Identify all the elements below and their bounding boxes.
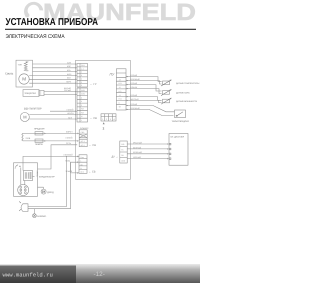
svg-text:-t1: -t1 xyxy=(119,94,121,97)
svg-text:СЕРЫЙ: СЕРЫЙ xyxy=(131,82,138,85)
svg-text:-t2: -t2 xyxy=(119,86,121,89)
svg-text:ДАТЧИК ТЕМПЕРАТУРЫ: ДАТЧИК ТЕМПЕРАТУРЫ xyxy=(176,82,199,85)
svg-text:ДАТЧИК ВЛАЖНОСТИ: ДАТЧИК ВЛАЖНОСТИ xyxy=(176,100,198,103)
svg-text:Н.З: Н.З xyxy=(119,90,122,93)
fan wire labels xyxy=(67,109,75,120)
connector E (4 cells) xyxy=(120,141,127,163)
svg-text:ЛАМПА: ЛАМПА xyxy=(35,143,43,146)
svg-text:ТХ: ТХ xyxy=(121,148,124,151)
svg-text:220В: 220В xyxy=(26,137,31,140)
svg-text:АС-1: АС-1 xyxy=(81,140,85,143)
latch pin block xyxy=(39,90,44,95)
svg-text:4: 4 xyxy=(81,77,82,80)
svg-text:ЗАЗЕМЛ.: ЗАЗЕМЛ. xyxy=(37,215,47,218)
svg-text:ЗУММЕР: ЗУММЕР xyxy=(80,127,89,130)
svg-text:УСТАНОВКА ПРИБОРА: УСТАНОВКА ПРИБОРА xyxy=(6,17,99,28)
svg-text:ТП: ТП xyxy=(119,105,122,108)
connector B (9 cells) xyxy=(77,88,88,122)
svg-text:ЭЛЕКТРИЧЕСКАЯ СХЕМА: ЭЛЕКТРИЧЕСКАЯ СХЕМА xyxy=(6,34,65,40)
thermostat box xyxy=(175,110,186,118)
mains wire 2 xyxy=(71,162,79,209)
grill motor M xyxy=(19,74,29,84)
svg-text:ДИОД: ДИОД xyxy=(47,191,54,194)
svg-text:ЗАЩЕЛКА: ЗАЩЕЛКА xyxy=(25,92,37,95)
svg-text:КРАСНЫЙ: КРАСНЫЙ xyxy=(133,141,142,144)
svg-text:ПЛ. ДИСПЛЕЯ: ПЛ. ДИСПЛЕЯ xyxy=(170,136,184,139)
svg-text:ЗЕЛЕНЫЙ: ЗЕЛЕНЫЙ xyxy=(133,151,143,154)
svg-text:СЕРЫЙ: СЕРЫЙ xyxy=(64,89,72,92)
main control board box ПУ xyxy=(76,60,131,179)
latch arrowheads xyxy=(75,91,77,95)
svg-text:2: 2 xyxy=(103,126,105,130)
display wires xyxy=(127,144,167,159)
svg-text:ЧЕРНЫЙ: ЧЕРНЫЙ xyxy=(133,156,141,159)
svg-text:НОЛЬ: НОЛЬ xyxy=(65,160,71,163)
svg-text:M: M xyxy=(23,115,26,120)
wire H3 V3 from capacitor to connector C xyxy=(38,145,78,169)
wire arrowheads A xyxy=(75,63,77,84)
svg-text:ТЕРМОПРЕДОХР.: ТЕРМОПРЕДОХР. xyxy=(172,120,190,123)
connector D (5 cells) xyxy=(79,155,87,174)
svg-text:АС-2: АС-2 xyxy=(81,144,85,147)
svg-text:3: 3 xyxy=(81,74,82,77)
svg-text:КОРИЧ: КОРИЧ xyxy=(66,131,73,134)
svg-text:ТЭН: ТЭН xyxy=(18,63,23,66)
svg-text:ДАТЧИК ПАРА: ДАТЧИК ПАРА xyxy=(176,92,190,95)
ground stub xyxy=(33,209,35,214)
svg-text:СИНИЙ: СИНИЙ xyxy=(66,136,73,139)
svg-text:2: 2 xyxy=(81,71,82,74)
svg-text:ОРАНЖ: ОРАНЖ xyxy=(131,86,138,89)
svg-text:ВЕНТИЛЯТОР: ВЕНТИЛЯТОР xyxy=(24,107,42,110)
latch box ЗАЩЕЛКА xyxy=(23,90,39,97)
ground symbol xyxy=(33,214,37,218)
latch wires xyxy=(44,92,75,95)
board right connector column (10 cells) xyxy=(116,69,126,110)
fan arrowheads xyxy=(75,110,77,119)
transformer feed wire (mains L) xyxy=(23,156,79,170)
program connector 4-cell row xyxy=(101,114,116,121)
varistor zigzag xyxy=(22,133,24,140)
transformer to magnetron wires xyxy=(21,168,25,186)
arrowheads connector D xyxy=(77,156,79,174)
svg-text:СЕРЫЙ: СЕРЫЙ xyxy=(131,74,138,77)
svg-text:ЧЕРН: ЧЕРН xyxy=(66,81,72,84)
diode wire xyxy=(38,187,44,189)
fan wires xyxy=(29,111,75,119)
svg-text:www.maunfeld.ru: www.maunfeld.ru xyxy=(3,272,53,279)
svg-text:-12-: -12- xyxy=(94,271,105,278)
svg-text:5: 5 xyxy=(81,104,82,107)
svg-text:КРАСН: КРАСН xyxy=(67,112,74,115)
thermo wires diagonal xyxy=(126,106,174,116)
fuse wire labels xyxy=(66,131,74,140)
svg-text:СИНИЙ: СИНИЙ xyxy=(67,109,74,112)
heating element coil xyxy=(24,62,27,71)
svg-text:← СВ: ← СВ xyxy=(89,170,96,173)
header rule xyxy=(5,28,196,30)
svg-text:РОЗОВЫЙ: РОЗОВЫЙ xyxy=(131,107,141,110)
svg-text:ЖЕЛТЫЙ: ЖЕЛТЫЙ xyxy=(131,98,140,101)
arrowheads fuse wires xyxy=(44,133,79,142)
svg-text:SW1: SW1 xyxy=(81,89,85,92)
power section box xyxy=(14,163,38,197)
svg-text:← ГР: ← ГР xyxy=(90,83,97,86)
sensor wires from right column xyxy=(126,77,162,103)
buzzer connector block xyxy=(79,130,87,147)
svg-text:← СВ: ← СВ xyxy=(89,144,96,147)
footer band xyxy=(0,264,200,283)
svg-text:CN1: CN1 xyxy=(81,64,85,67)
svg-text:L: L xyxy=(80,160,81,163)
capacitor link line xyxy=(33,176,35,178)
diode circle xyxy=(41,189,46,194)
varistor stubs xyxy=(24,133,35,141)
connector A (7 cells) xyxy=(77,64,88,88)
watermark logo MAUNFELD xyxy=(24,0,196,25)
svg-text:L-1: L-1 xyxy=(81,67,84,70)
svg-text:ЖЕЛТЫЙ: ЖЕЛТЫЙ xyxy=(133,146,142,149)
svg-text:CN3: CN3 xyxy=(81,131,85,134)
svg-text:L: L xyxy=(81,119,82,122)
display wire labels xyxy=(133,141,143,159)
mains switch 3~ xyxy=(15,165,21,170)
svg-text:СЕТЬ: СЕТЬ xyxy=(66,142,72,145)
svg-text:6: 6 xyxy=(81,84,82,87)
plug wire 2 xyxy=(28,208,71,210)
fuse wire 1 to buzzer xyxy=(43,132,77,134)
junction V1 xyxy=(66,156,67,157)
sensor wire labels xyxy=(131,74,141,110)
mains branch to cell 5 xyxy=(71,162,79,173)
svg-text:3: 3 xyxy=(81,96,82,99)
svg-text:АС2: АС2 xyxy=(80,171,83,174)
svg-text:5: 5 xyxy=(81,81,82,84)
latch wire labels xyxy=(64,87,72,92)
sensor S1 xyxy=(161,80,172,86)
right column wire arrowheads xyxy=(127,76,129,110)
transformer box xyxy=(24,170,39,181)
display panel box xyxy=(169,134,188,166)
svg-text:СИН: СИН xyxy=(67,61,72,64)
svg-text:SW2: SW2 xyxy=(81,93,85,96)
svg-text:← ПВ: ← ПВ xyxy=(90,117,97,120)
svg-text:-t3: -t3 xyxy=(119,78,121,81)
down arrow under row xyxy=(103,122,105,124)
svg-text:СЕРЫЙ: СЕРЫЙ xyxy=(131,94,138,97)
svg-text:РОЗОВЫЙ: РОЗОВЫЙ xyxy=(131,78,141,81)
svg-text:M: M xyxy=(22,77,26,82)
svg-text:3: 3 xyxy=(15,166,17,169)
power plug xyxy=(19,201,28,211)
mains wire labels xyxy=(64,154,74,174)
svg-text:КОНДЕНСАТОР: КОНДЕНСАТОР xyxy=(39,176,55,179)
svg-text:ПРЕДОХР.: ПРЕДОХР. xyxy=(34,128,45,131)
svg-text:FM: FM xyxy=(81,108,84,111)
plug wire 1 xyxy=(28,156,66,206)
svg-text:4: 4 xyxy=(81,100,82,103)
sensor S3 xyxy=(161,98,172,104)
grill unit box xyxy=(16,60,33,87)
svg-text:GND: GND xyxy=(121,159,126,162)
fan motor M xyxy=(20,113,29,122)
magnetron socket xyxy=(18,185,29,196)
svg-text:СЕТЕВОЙ: СЕТЕВОЙ xyxy=(64,154,74,157)
svg-text:ДУ →: ДУ → xyxy=(112,155,119,158)
svg-text:12В: 12В xyxy=(121,143,125,146)
svg-text:N: N xyxy=(81,115,83,118)
svg-text:Гриль: Гриль xyxy=(5,71,14,75)
fuse wire 2 to connector C xyxy=(43,140,77,142)
svg-text:СЕРЫЙ: СЕРЫЙ xyxy=(131,103,138,106)
svg-text:FM: FM xyxy=(81,111,84,114)
grill wire labels xyxy=(66,61,72,83)
fuse box 2 xyxy=(35,139,43,142)
sensor S2 xyxy=(161,89,172,95)
wire coil stubs xyxy=(26,62,29,71)
fuse box 1 xyxy=(35,132,43,135)
svg-text:Сив: Сив xyxy=(80,156,83,159)
display wire arrowheads xyxy=(167,143,169,159)
svg-text:ПУ: ПУ xyxy=(110,73,115,77)
grill wires to connector A xyxy=(29,64,75,83)
svg-text:RХ: RХ xyxy=(121,154,124,157)
